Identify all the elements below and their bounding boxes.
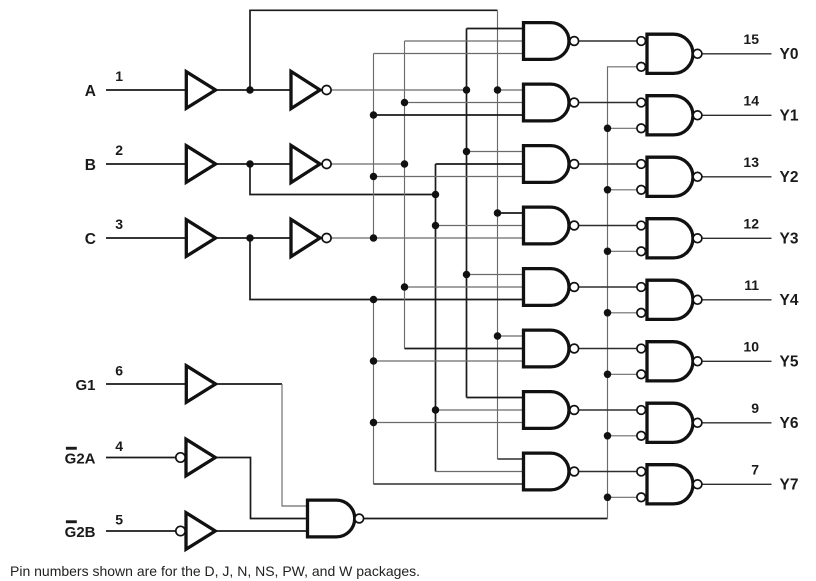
inverter C	[291, 219, 320, 256]
decode NAND gate 8 (Y7)	[524, 453, 569, 490]
output gate Y3 upper input bubble	[637, 221, 646, 230]
wire Y6 output (to pin)	[702, 422, 772, 424]
wire C-bar inverter output to gate 4 bottom input	[331, 237, 523, 239]
junction: enable rail tap Y4	[604, 309, 612, 317]
svg-text:3: 3	[115, 216, 123, 232]
junction: A bus tap gate 4 top	[494, 209, 502, 217]
decode NAND gate 2 output bubble	[570, 98, 579, 107]
svg-text:2: 2	[115, 142, 123, 158]
output gate Y7 upper input bubble	[637, 467, 646, 476]
output gate Y6 output bubble	[693, 418, 702, 427]
inverter C output bubble	[322, 234, 331, 243]
output gate Y2	[647, 157, 693, 196]
wire G2B input (pin 5 to bubble)	[106, 530, 176, 532]
wire branch A to gate 6 input (y=336.0)	[498, 335, 524, 337]
buffer B	[186, 146, 215, 183]
junction: C bus tap gate 7 bottom	[370, 419, 378, 427]
junction: enable rail tap Y7	[604, 494, 612, 502]
junction: B-bar bus tap gate 5 mid	[401, 283, 409, 291]
wire enable NAND output to enable rail	[364, 518, 608, 520]
svg-text:G1: G1	[75, 377, 95, 394]
wire branch C-bar/C to gate 8 input (y=484.0)	[374, 483, 524, 485]
wire enable rail tap to output gate 2 lower input	[608, 127, 637, 129]
junction: B bus tap gate 7 mid	[432, 406, 440, 414]
decode NAND gate 8 output bubble	[570, 467, 579, 476]
caption note	[10, 564, 420, 578]
decode NAND gate 2 (Y1)	[524, 84, 569, 121]
output gate Y1	[647, 96, 693, 135]
wire G2A buffer output to enable NAND middle input	[215, 458, 307, 519]
buffer C	[186, 220, 215, 257]
wire branch A-bar to gate 5 input (y=274.5)	[467, 274, 524, 276]
wire decode gate 3 output to Y2 gate upper input	[579, 163, 637, 165]
svg-text:Y3: Y3	[780, 230, 799, 247]
junction: A bus tap gate 2 top	[494, 86, 502, 94]
junction: C true source tap	[370, 296, 378, 304]
net C true vertical bus	[373, 300, 375, 485]
decode NAND gate 7 (Y6)	[524, 392, 570, 429]
junction: B buffer output node	[246, 160, 254, 168]
output gate Y6 lower input bubble	[637, 432, 646, 441]
wire enable rail tap to output gate 6 lower input	[608, 373, 637, 375]
wire Y3 output (to pin)	[702, 237, 772, 239]
wire G2B buffer output to enable NAND bottom input	[215, 530, 307, 532]
junction: enable rail tap Y1	[604, 125, 612, 133]
wire branch A to gate 4 input (y=213.0)	[498, 212, 524, 214]
output gate Y3 lower input bubble	[637, 247, 646, 256]
inverter A output bubble	[322, 86, 331, 95]
wire Y0 output (to pin)	[702, 53, 772, 55]
junction: C-bar source tap	[370, 234, 378, 242]
wire branch C-bar/C to gate 1 input (y=53.5)	[374, 53, 524, 55]
svg-text:Y6: Y6	[780, 415, 799, 432]
decode NAND gate 1 output bubble	[570, 37, 579, 46]
svg-text:B: B	[85, 157, 96, 174]
svg-text:Y4: Y4	[780, 292, 799, 309]
wire enable rail tap to output gate 3 lower input	[608, 189, 637, 191]
junction: enable rail tap Y2	[604, 186, 612, 194]
wire Y4 output (to pin)	[702, 299, 772, 301]
junction: enable rail tap Y3	[604, 248, 612, 256]
svg-text:7: 7	[751, 462, 759, 478]
svg-text:11: 11	[744, 277, 759, 293]
junction: A-bar bus tap gate 5 top	[463, 271, 471, 279]
decode NAND gate 4 (Y3)	[524, 207, 569, 244]
svg-text:4: 4	[115, 438, 123, 454]
junction: C buffer output node	[246, 234, 254, 242]
wire branch C-bar/C to gate 6 input (y=361.0)	[374, 360, 524, 362]
output gate Y2 lower input bubble	[637, 186, 646, 195]
junction: B bus tap gate 4 mid	[432, 222, 440, 230]
wire decode gate 4 output to Y3 gate upper input	[579, 225, 637, 227]
wire decode gate 5 output to Y4 gate upper input	[579, 286, 637, 288]
wire branch C-bar/C to gate 2 input (y=115.0)	[374, 114, 524, 116]
output gate Y5	[647, 342, 693, 381]
output gate Y1 lower input bubble	[637, 124, 646, 133]
wire decode gate 7 output to Y6 gate upper input	[579, 409, 637, 411]
junction: C-bar bus tap gate 3 bottom	[370, 173, 378, 181]
output gate Y0 lower input bubble	[637, 63, 646, 72]
net C-bar vertical bus	[373, 54, 375, 239]
wire branch C-bar/C to gate 7 input (y=422.5)	[374, 422, 524, 424]
enable NAND gate	[308, 500, 355, 537]
output gate Y1 upper input bubble	[637, 98, 646, 107]
wire decode gate 1 output to Y0 gate upper input	[579, 40, 637, 42]
wire branch B-bar to gate 6 input (y=348.5)	[405, 348, 524, 350]
wire branch A to gate 2 input (y=90.0)	[498, 89, 524, 91]
output gate Y1 output bubble	[693, 111, 702, 120]
output gate Y0 output bubble	[693, 49, 702, 58]
decode NAND gate 5 output bubble	[570, 283, 579, 292]
wire Y1 output (to pin)	[702, 114, 772, 116]
wire branch B to gate 7 input (y=410)	[436, 409, 524, 411]
wire branch B-bar to gate 2 input (y=102.5)	[405, 102, 524, 104]
enable NAND output bubble	[355, 514, 364, 523]
net B true: junction drop to bus column	[250, 164, 436, 195]
junction: A-bar source tap	[463, 86, 471, 94]
G2A input bubble	[176, 453, 185, 462]
svg-text:9: 9	[751, 400, 759, 416]
wire enable rail tap to output gate 7 lower input	[608, 435, 637, 437]
svg-text:G2B: G2B	[65, 524, 96, 541]
wire A buffer output to inverter	[216, 89, 291, 91]
junction: A bus tap gate 6 top	[494, 332, 502, 340]
decode NAND gate 6 (Y5)	[524, 330, 570, 367]
wire C buffer output to inverter	[216, 237, 291, 239]
wire B buffer output to inverter	[216, 163, 291, 165]
junction: B true source tap	[432, 191, 440, 199]
output gate Y4 lower input bubble	[637, 309, 646, 318]
svg-text:A: A	[85, 83, 96, 100]
decode NAND gate 3 output bubble	[570, 160, 579, 169]
net A true vertical bus	[497, 10, 499, 459]
wire decode gate 8 output to Y7 gate upper input	[579, 471, 637, 473]
svg-text:C: C	[85, 231, 96, 248]
net A-bar vertical bus	[466, 29, 468, 398]
output gate Y3	[647, 219, 693, 258]
inverter A	[291, 71, 320, 108]
wire B-bar inverter output	[331, 163, 404, 165]
wire branch A-bar to gate 3 input (y=151.5)	[467, 151, 524, 153]
buffer G2B (active low input)	[186, 513, 215, 550]
decode NAND gate 1 (Y0)	[524, 23, 569, 60]
output gate Y7 lower input bubble	[637, 493, 646, 502]
buffer A	[186, 72, 215, 109]
svg-text:5: 5	[115, 512, 123, 528]
wire branch C-bar/C to gate 3 input (y=176.5)	[374, 176, 524, 178]
net C true: junction drop and run to gate 5 bottom input	[250, 238, 524, 300]
net B true vertical bus	[435, 164, 437, 472]
junction: enable rail tap Y6	[604, 432, 612, 440]
junction: C-bar bus tap gate 2 bottom	[370, 111, 378, 119]
output gate Y5 output bubble	[693, 357, 702, 366]
svg-text:Y0: Y0	[780, 46, 799, 63]
buffer G2A (active low input)	[186, 439, 215, 476]
wire branch B to gate 3 input (y=164)	[436, 163, 524, 165]
svg-text:13: 13	[743, 154, 759, 170]
output gate Y4 output bubble	[693, 295, 702, 304]
inverter B output bubble	[322, 160, 331, 169]
junction: B-bar source tap	[401, 160, 409, 168]
wire Y5 output (to pin)	[702, 360, 772, 362]
wire Y7 output (to pin)	[702, 483, 772, 485]
wire enable rail tap to output gate 8 lower input	[608, 496, 637, 498]
wire branch A to gate 8 input (y=459.0)	[498, 458, 524, 460]
net enable rail vertical	[608, 67, 637, 519]
output gate Y6	[647, 403, 693, 442]
svg-text:12: 12	[743, 216, 759, 232]
wire G1 input (pin 6 to buffer)	[106, 383, 186, 385]
wire G1 drop to enable NAND top input	[282, 384, 308, 506]
wire B input (pin 2 to buffer)	[106, 163, 186, 165]
wire decode gate 2 output to Y1 gate upper input	[579, 102, 637, 104]
svg-text:6: 6	[115, 362, 123, 378]
junction: A buffer output node	[246, 86, 254, 94]
output gate Y2 upper input bubble	[637, 160, 646, 169]
output gate Y6 upper input bubble	[637, 406, 646, 415]
buffer G1	[186, 366, 215, 403]
wire G2A input (pin 4 to bubble)	[106, 457, 176, 459]
G2B input bubble	[176, 526, 185, 535]
decode NAND gate 3 (Y2)	[524, 146, 570, 183]
wire enable rail tap to output gate 5 lower input	[608, 312, 637, 314]
svg-text:14: 14	[743, 93, 759, 109]
wire enable rail tap to output gate 4 lower input	[608, 250, 637, 252]
svg-text:1: 1	[115, 68, 123, 84]
junction: B-bar bus tap gate 2 mid	[401, 99, 409, 107]
wire G1 buffer output	[216, 383, 282, 385]
decode NAND gate 6 output bubble	[570, 344, 579, 353]
decode NAND gate 5 (Y4)	[524, 269, 569, 306]
junction: A-bar bus tap gate 3 top	[463, 148, 471, 156]
wire branch A-bar to gate 1 input (y=28.5)	[467, 28, 524, 30]
output gate Y5 lower input bubble	[637, 370, 646, 379]
decode NAND gate 7 output bubble	[570, 406, 579, 415]
svg-text:Y2: Y2	[780, 169, 799, 186]
wire decode gate 6 output to Y5 gate upper input	[579, 348, 637, 350]
output gate Y5 upper input bubble	[637, 344, 646, 353]
output gate Y4 upper input bubble	[637, 283, 646, 292]
output gate Y7 output bubble	[693, 480, 702, 489]
net A true: junction up and across top	[250, 10, 498, 90]
junction: C bus tap gate 6 bottom	[370, 357, 378, 365]
svg-text:Y7: Y7	[780, 476, 799, 493]
wire C input (pin 3 to buffer)	[106, 237, 186, 239]
inverter B	[291, 145, 320, 182]
net B-bar vertical bus	[404, 41, 406, 349]
svg-text:10: 10	[743, 339, 759, 355]
output gate Y0 upper input bubble	[637, 37, 646, 46]
decode NAND gate 4 output bubble	[570, 221, 579, 230]
output gate Y7	[647, 465, 693, 504]
wire branch B to gate 4 input (y=225.5)	[436, 225, 524, 227]
output gate Y3 output bubble	[693, 234, 702, 243]
wire A input (pin 1 to buffer)	[106, 89, 186, 91]
output gate Y4	[647, 280, 693, 319]
wire A-bar inverter output	[331, 89, 466, 91]
svg-text:Y1: Y1	[780, 107, 799, 124]
svg-text:Y5: Y5	[780, 353, 799, 370]
wire branch B-bar to gate 5 input (y=287)	[405, 286, 524, 288]
wire branch B to gate 8 input (y=471.5)	[436, 471, 524, 473]
wire Y2 output (to pin)	[702, 176, 772, 178]
junction: enable rail tap Y5	[604, 371, 612, 379]
wire branch A-bar to gate 7 input (y=397.5)	[467, 397, 524, 399]
output gate Y0	[647, 34, 693, 73]
svg-text:15: 15	[743, 31, 759, 47]
output gate Y2 output bubble	[693, 172, 702, 181]
wire branch B-bar to gate 1 input (y=41)	[405, 40, 524, 42]
svg-text:G2A: G2A	[65, 451, 96, 468]
